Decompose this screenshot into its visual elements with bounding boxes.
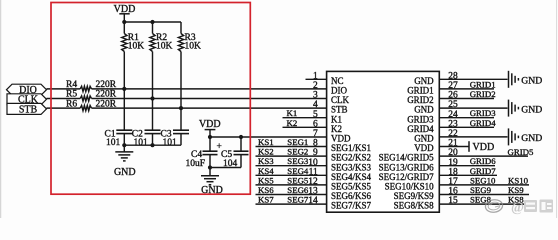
wire CLK line to C2 [152,99,154,131]
svg-text:SEG10/KS10: SEG10/KS10 [385,182,435,192]
svg-text:R5: R5 [66,90,77,100]
wire C3 to ground bus [180,134,182,146]
svg-text:SEG9: SEG9 [470,185,492,195]
svg-text:DIO: DIO [331,86,347,96]
wire R3 to STB line [180,52,182,109]
svg-text:GRID1: GRID1 [407,86,434,96]
svg-text:SEG5: SEG5 [287,175,309,185]
power flag VDD (C4/C5) [199,119,221,137]
svg-text:10uF: 10uF [186,159,206,169]
wire VDD rail to R1 [123,22,125,34]
wire ground bus C1-C3 [124,144,181,146]
svg-text:SEG6/KS6: SEG6/KS6 [331,191,372,201]
wire DIO port to R4 [47,88,81,90]
wire VDD top rail [124,21,181,23]
wire pin 20 (GRID5) [439,155,528,157]
svg-text:4: 4 [313,100,318,110]
wire KS4 to pin 11 [256,174,327,176]
svg-text:SEG7/KS7: SEG7/KS7 [331,201,372,211]
wire DIO line to C1 [123,89,125,130]
wire C5 to ground bus [240,155,242,168]
wire pin 18 (GRID7) [439,174,497,176]
svg-text:GRID5: GRID5 [508,147,535,157]
svg-text:101: 101 [106,138,121,148]
svg-text:GND: GND [521,76,542,87]
svg-text:GRID3: GRID3 [470,108,497,118]
ground GND (under C4/C5) [201,168,223,197]
wire KS1 to pin 8 [256,146,327,148]
svg-text:SEG1/KS1: SEG1/KS1 [331,143,371,153]
svg-text:NC: NC [331,76,344,86]
port STB [7,103,47,115]
watermark stamp ellipse [485,199,504,214]
wire C1 to ground bus [123,134,125,146]
wire pin 16 (SEG9/KS9) [439,194,529,196]
junction VDD/C5 [239,135,243,139]
resistor R5 [80,96,91,101]
svg-text:7: 7 [313,129,318,139]
wire pin 28 to GND [439,78,507,80]
svg-text:SEG12/GRID7: SEG12/GRID7 [379,172,435,182]
svg-text:KS4: KS4 [258,166,274,176]
capacitor C1 [116,130,132,133]
svg-text:GND: GND [521,104,542,115]
wire pin 21 to VDD [439,146,469,148]
wire R6 to chip pin 4 (STB) [92,107,327,109]
junction DIO/R1 [122,87,126,91]
junction bus/C1 [122,143,126,147]
svg-text:SEG5/KS5: SEG5/KS5 [331,182,372,192]
wire VDD node to C4 [209,137,211,151]
junction VDD/C4 [208,135,212,139]
svg-text:GRID2: GRID2 [470,89,496,99]
junction on VDD rail at R1 [122,20,126,24]
wire VDD rail to R3 [180,22,182,34]
watermark glyph block 1 [524,200,537,212]
svg-text:SEG3: SEG3 [287,156,309,166]
junction STB/R3 [179,106,183,110]
ground GND (under C1-C3) [114,145,136,178]
wire KS6 to pin 13 [256,194,327,196]
scan edge right [556,0,558,218]
resistor R4 [80,86,91,91]
wire KS7 to pin 14 [256,203,327,205]
svg-text:SEG9/KS9: SEG9/KS9 [394,191,435,201]
wire ground bus C4-C5 [210,167,241,169]
svg-text:SEG3/KS3: SEG3/KS3 [331,162,372,172]
svg-text:GRID3: GRID3 [407,114,434,124]
resistor R1 [122,34,127,52]
svg-text:SEG13/GRID6: SEG13/GRID6 [379,162,435,172]
svg-text:GRID1: GRID1 [470,79,496,89]
svg-text:GND: GND [414,134,434,144]
svg-text:KS2: KS2 [258,147,274,157]
wire pin 5 (K1) [283,117,327,119]
svg-text:VDD: VDD [473,142,495,153]
resistor R3 [178,34,183,52]
capacitor C4 (polarized) [203,151,218,154]
svg-text:KS5: KS5 [258,175,274,185]
wire R2 to CLK line [152,52,154,99]
svg-text:R4: R4 [66,80,77,90]
wire pin 27 (GRID1) [439,88,494,90]
svg-text:3: 3 [313,91,318,101]
svg-text:@: @ [511,201,524,216]
svg-text:VDD: VDD [414,143,434,153]
svg-text:10K: 10K [128,42,145,52]
svg-text:GRID6: GRID6 [470,156,497,166]
svg-text:10K: 10K [156,42,173,52]
wire STB line to C3 [180,108,182,130]
wire C2 to ground bus [152,134,154,146]
junction bus/C2 [150,143,154,147]
wire VDD rail to R2 [152,22,154,34]
junction CLK/R2 [150,96,154,100]
svg-text:KS9: KS9 [508,185,524,195]
svg-text:K1: K1 [331,114,342,124]
svg-text:K2: K2 [287,118,298,128]
watermark glyph block 2 [540,200,554,213]
resistor R6 [80,106,91,111]
svg-text:SEG8/KS8: SEG8/KS8 [394,201,435,211]
svg-text:GRID2: GRID2 [407,95,434,105]
power flag VDD (top) [114,4,136,22]
ground GND (pin 25) [509,100,543,117]
scan edge left [0,0,2,218]
svg-text:GND: GND [114,167,136,178]
wire pin 19 (GRID6) [439,165,495,167]
junction on VDD rail at R2 [150,20,154,24]
port CLK [7,94,47,106]
svg-text:GRID7: GRID7 [470,166,497,176]
svg-text:GND: GND [414,76,434,86]
wire KS2 to pin 9 [256,155,327,157]
wire VDD node to C5 [240,137,242,151]
ground GND (pin 28) [509,71,543,88]
svg-text:GND: GND [414,105,434,115]
power flag VDD (pin 21) [469,141,494,153]
svg-text:SEG10: SEG10 [470,175,496,185]
svg-text:SEG4: SEG4 [287,166,309,176]
wire R5 to chip pin 3 (CLK) [92,98,327,100]
svg-text:SEG1: SEG1 [287,137,308,147]
wire pin 15 (SEG8/KS8) [439,203,529,205]
wire KS5 to pin 12 [256,184,327,186]
wire pin 23 (GRID4) [439,126,494,128]
wire pin 17 (SEG10/KS10) [439,184,529,186]
wire pin 6 (K2) [283,126,327,128]
capacitor C2 [145,130,161,133]
svg-text:101: 101 [163,138,178,148]
svg-text:SEG6: SEG6 [287,185,309,195]
wire KS3 to pin 10 [256,165,327,167]
IC U1 body [327,71,440,212]
wire VDD to chip pin 7 [210,136,327,138]
svg-text:VDD: VDD [199,119,221,130]
svg-text:KS10: KS10 [508,175,529,185]
svg-text:KS1: KS1 [258,137,274,147]
wire pin 22 to GND [439,136,507,138]
wire CLK port to R5 [47,98,81,100]
svg-text:SEG7: SEG7 [287,195,309,205]
resistor R2 [150,34,155,52]
wire R1 to DIO line [123,52,125,89]
capacitor C3 [173,130,189,133]
svg-text:10K: 10K [185,42,202,52]
svg-text:SEG8: SEG8 [470,195,492,205]
ground GND (pin 22) [509,128,543,145]
svg-text:2: 2 [313,81,318,91]
svg-text:CLK: CLK [331,95,350,105]
port DIO [7,84,47,96]
wire C4 to ground bus [209,155,211,168]
junction bus/C4 [208,165,212,169]
svg-text:STB: STB [19,104,38,115]
svg-text:GRID4: GRID4 [470,118,497,128]
svg-text:101: 101 [134,138,149,148]
svg-text:K1: K1 [287,108,298,118]
wire R4 to chip pin 2 (DIO) [92,88,327,90]
svg-text:SEG2: SEG2 [287,147,308,157]
svg-text:GND: GND [521,133,542,144]
wire pin 26 (GRID2) [439,98,494,100]
svg-text:KS6: KS6 [258,185,274,195]
capacitor C5 [234,151,249,154]
svg-text:GRID4: GRID4 [407,124,434,134]
svg-text:SEG4/KS4: SEG4/KS4 [331,172,372,182]
svg-text:K2: K2 [331,124,342,134]
svg-text:R6: R6 [66,99,77,109]
svg-text:VDD: VDD [331,134,351,144]
svg-text:KS7: KS7 [258,195,274,205]
wire pin 24 (GRID3) [439,117,494,119]
wire pin 25 to GND [439,107,507,109]
svg-text:SEG14/GRID5: SEG14/GRID5 [379,153,435,163]
svg-text:STB: STB [331,105,348,115]
svg-text:SEG2/KS2: SEG2/KS2 [331,153,371,163]
svg-text:KS3: KS3 [258,156,274,166]
wire pin 1 stub (NC) [306,78,327,80]
red highlight box [51,3,250,195]
wire STB port to R6 [47,107,81,109]
